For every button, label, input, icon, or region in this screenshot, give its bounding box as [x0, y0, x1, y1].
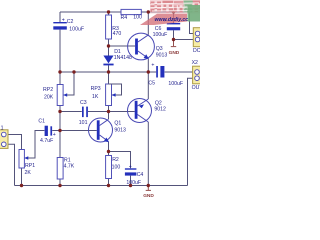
- svg-text:20K: 20K: [44, 94, 54, 100]
- svg-text:RP3: RP3: [91, 86, 101, 92]
- wire left column to base node: [59, 112, 61, 131]
- svg-text:101: 101: [79, 120, 88, 126]
- wire RP2 bottom lead: [59, 106, 61, 112]
- svg-text:2K: 2K: [25, 170, 32, 176]
- transistor Q3: [128, 33, 168, 60]
- capacitor C5: [148, 62, 183, 87]
- node junction RP2 bottom C3: [58, 110, 61, 113]
- svg-text:OUT: OUT: [192, 85, 200, 91]
- wire Q1 collector lead: [108, 112, 110, 120]
- watermark: [140, 0, 200, 25]
- wire C3 left: [60, 111, 82, 113]
- wire DC jack pin1 drop: [190, 12, 194, 34]
- svg-text:X2: X2: [192, 60, 198, 66]
- node junction mid D1 RP3: [107, 70, 110, 73]
- node junction C6 DC pin2: [172, 38, 175, 41]
- node junction top C6: [172, 10, 175, 13]
- svg-text:www.dzdiy.cc: www.dzdiy.cc: [155, 17, 189, 23]
- svg-text:1K: 1K: [92, 94, 99, 100]
- svg-text:9013: 9013: [114, 127, 126, 133]
- node junction bottom C4: [129, 184, 132, 187]
- wire R3 bottom lead: [108, 39, 110, 46]
- svg-text:100uF: 100uF: [126, 180, 141, 186]
- node junction Q1 emitter R2 C4: [107, 150, 110, 153]
- wire C3 right: [88, 111, 109, 113]
- svg-text:+: +: [129, 164, 132, 170]
- svg-text:Q2: Q2: [155, 100, 162, 106]
- svg-text:RP1: RP1: [25, 163, 35, 169]
- wire C2 bottom lead to mid rail: [59, 30, 61, 72]
- wire C2 top lead: [59, 12, 61, 22]
- svg-text:C4: C4: [137, 172, 144, 178]
- wire R2 top lead: [108, 152, 110, 156]
- transistor Q2: [128, 99, 167, 123]
- wire X1 pin1 to RP1: [6, 135, 22, 150]
- svg-text:4.7uF: 4.7uF: [40, 138, 53, 144]
- wire top +V rail: [60, 11, 190, 13]
- svg-text:100uF: 100uF: [69, 26, 84, 32]
- ground symbol bottom: [143, 186, 154, 199]
- svg-text:100uF: 100uF: [168, 81, 183, 87]
- wire C5 left: [148, 71, 156, 73]
- wire C1 left to RP1 wiper riser: [25, 131, 45, 159]
- potentiometer RP3: [91, 84, 122, 106]
- svg-text:100uF: 100uF: [153, 32, 168, 38]
- node junction Q3 base D1: [107, 44, 110, 47]
- wire bottom ground rail: [15, 185, 188, 187]
- svg-text:9012: 9012: [154, 107, 166, 113]
- node junction bottom R2: [107, 184, 110, 187]
- resistor R1: [57, 158, 75, 180]
- node junction bottom R1: [58, 184, 61, 187]
- svg-text:GND: GND: [143, 193, 154, 199]
- wire C6 bottom lead: [173, 30, 175, 39]
- wire Q3 base row: [109, 45, 136, 47]
- wire Q1 base row: [60, 130, 97, 132]
- connector X2: [192, 60, 204, 91]
- wire mid output rail: [60, 71, 148, 73]
- svg-text:100: 100: [112, 165, 121, 171]
- svg-text:DC: DC: [193, 48, 200, 54]
- wire emitter node row to C4: [109, 152, 131, 169]
- node junction Q1 collector Q2 base: [107, 110, 110, 113]
- wire C6 top lead: [173, 12, 175, 23]
- wire Q2 emitter to output node: [147, 72, 149, 99]
- svg-text:+: +: [151, 62, 154, 68]
- node junction bottom RP1: [20, 184, 23, 187]
- transistor Q1: [89, 118, 127, 142]
- capacitor C3: [79, 100, 88, 126]
- wire R1 bottom lead: [59, 179, 61, 186]
- svg-text:R2: R2: [112, 157, 119, 163]
- svg-text:C2: C2: [67, 19, 74, 25]
- svg-text:Q1: Q1: [114, 121, 121, 127]
- wire RP3 top lead: [108, 72, 110, 84]
- wire right rail to X2 pin2: [188, 78, 194, 185]
- node junction Q1 base C1: [58, 129, 61, 132]
- node junction mid RP2 wiper: [72, 70, 75, 73]
- node junction mid output: [147, 70, 150, 73]
- wire R2 bottom lead: [108, 179, 110, 186]
- wire RP3 bottom lead: [108, 106, 110, 112]
- wire Q1 emitter lead: [108, 142, 110, 152]
- wire Q2 collector to ground rail: [147, 122, 149, 186]
- connector X1: [0, 126, 8, 149]
- svg-text:470: 470: [113, 31, 122, 37]
- node junction mid C2 RP2: [58, 70, 61, 73]
- resistor R4: [121, 9, 143, 21]
- svg-text:C6: C6: [155, 26, 162, 32]
- wire C1 to base junction: [52, 130, 60, 132]
- ground symbol near C6: [169, 40, 180, 56]
- potentiometer RP1: [19, 150, 35, 177]
- node junction top Q3 collector: [147, 10, 150, 13]
- wire Q3 emitter to output node: [147, 59, 149, 73]
- wire Q2 base row: [109, 111, 135, 113]
- connector DC jack: [193, 28, 201, 55]
- svg-text:4.7K: 4.7K: [64, 163, 75, 169]
- diode D1: [103, 49, 132, 65]
- svg-text:1: 1: [1, 126, 4, 132]
- svg-text:RP2: RP2: [43, 87, 53, 93]
- wire X1 pin2 down: [6, 144, 15, 185]
- wire R3 top lead: [108, 12, 110, 15]
- svg-text:GND: GND: [169, 50, 180, 56]
- wire RP2 wiper riser: [64, 72, 74, 95]
- node junction top R3: [107, 10, 110, 13]
- svg-text:R4: R4: [121, 15, 128, 21]
- svg-text:C5: C5: [148, 80, 155, 86]
- wire C4 bottom lead: [130, 176, 132, 186]
- wire C5 right to X2 pin1: [165, 71, 194, 73]
- svg-text:100: 100: [133, 15, 142, 21]
- node junction bottom Q2 GND: [147, 184, 150, 187]
- svg-text:1N4148: 1N4148: [114, 55, 132, 61]
- svg-text:9013: 9013: [156, 52, 168, 58]
- wire D1 cathode lead: [108, 65, 110, 72]
- resistor R3: [106, 15, 122, 39]
- wire C6 node to DC jack pin2: [174, 39, 194, 41]
- wire RP2 top lead: [59, 72, 61, 85]
- capacitor C1: [38, 119, 55, 144]
- wire D1 anode lead: [108, 46, 110, 56]
- capacitor C2: [53, 18, 84, 33]
- capacitor C6: [153, 19, 181, 39]
- svg-text:C1: C1: [38, 119, 45, 125]
- potentiometer RP2: [43, 85, 67, 106]
- resistor R2: [106, 156, 121, 179]
- svg-text:+: +: [62, 18, 65, 24]
- wire Q3 collector to rail: [147, 12, 149, 35]
- svg-text:C3: C3: [80, 100, 87, 106]
- capacitor C4: [125, 164, 144, 186]
- wire R1 top lead: [59, 131, 61, 158]
- wire RP1 bottom lead: [21, 168, 23, 186]
- svg-text:Q3: Q3: [156, 46, 163, 52]
